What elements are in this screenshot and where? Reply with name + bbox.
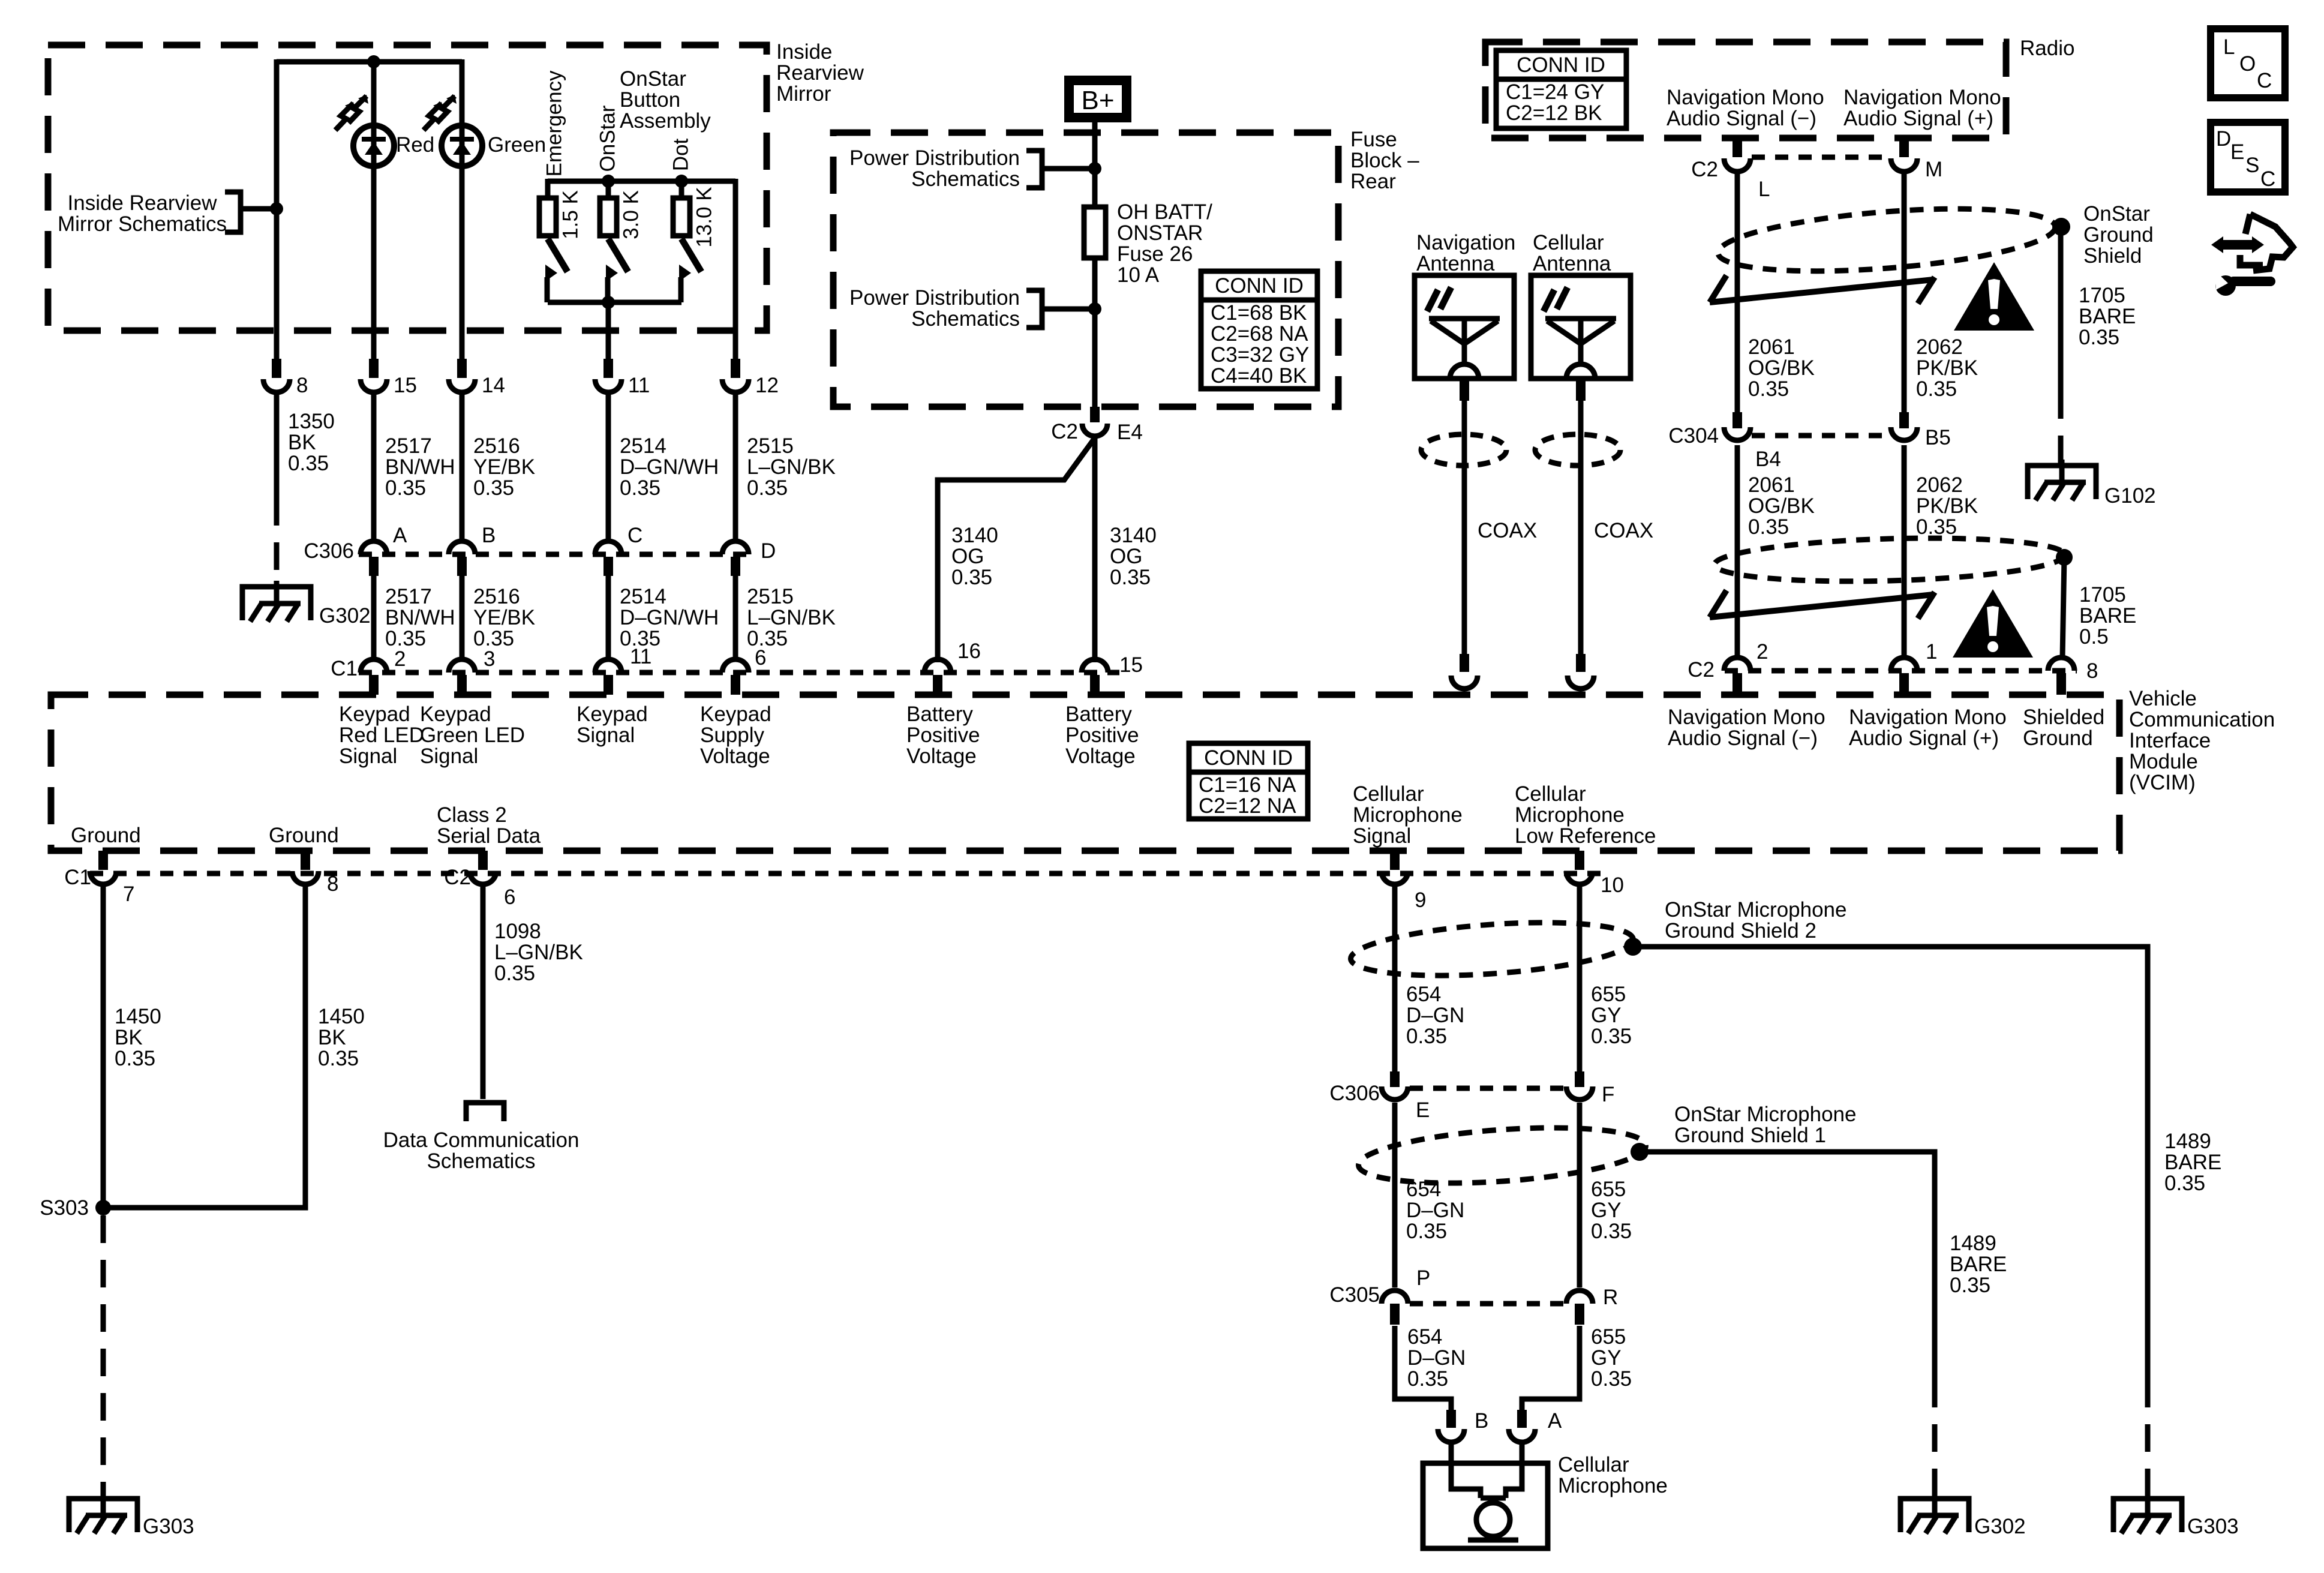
- connector C305 R: [1566, 1290, 1593, 1304]
- wire 1705 bare 0.5: [2062, 557, 2064, 658]
- DESC box: [2211, 122, 2285, 192]
- svg-text:A: A: [393, 524, 407, 547]
- wire 1350 BK solid: [274, 391, 280, 498]
- ground G303 right: [2113, 1493, 2182, 1533]
- bracket Data Communication Schematics: [466, 1103, 504, 1121]
- svg-text:Navigation MonoAudio Signal (+: Navigation MonoAudio Signal (+): [1849, 706, 2007, 750]
- wire ground shield 1 dashed: [1932, 1380, 1938, 1496]
- svg-text:C2: C2: [1051, 420, 1078, 443]
- wire C306 to C1 at x=623: [371, 576, 377, 659]
- wire 2062 upper: [1902, 172, 1907, 414]
- wire to C306 at x=770: [460, 391, 465, 544]
- VCIM bottom pin 6 stub: [478, 851, 488, 870]
- connector C306 E: [1382, 1086, 1408, 1100]
- connector C306 mic dotted line: [1410, 1086, 1566, 1091]
- svg-text:E: E: [2230, 140, 2244, 164]
- svg-text:C: C: [2260, 167, 2275, 191]
- wire branch to pin16: [938, 438, 1095, 662]
- node shield dot lower: [2056, 549, 2073, 566]
- VCIM bottom pin 8 stub: [301, 851, 310, 870]
- connector VCIM pin 6: [722, 659, 749, 673]
- svg-text:C306: C306: [1329, 1082, 1380, 1105]
- wire fuse to bottom: [1092, 258, 1098, 407]
- wire mic T bar: [1481, 1498, 1506, 1503]
- wire rail to R1: [545, 179, 551, 198]
- wire mic B inside: [1451, 1442, 1481, 1498]
- C306 pin A stub: [369, 557, 379, 576]
- wire 654 seg1: [1392, 884, 1398, 1071]
- switch Emergency: [545, 239, 568, 302]
- pin 14 stub: [457, 359, 467, 378]
- radio pin L stub: [1733, 138, 1742, 157]
- connector cell coax at VCIM: [1568, 676, 1594, 689]
- wire green LED feed and to pin14: [460, 59, 465, 359]
- svg-text:C1=24 GY: C1=24 GY: [1506, 80, 1604, 104]
- bracket power distribution upper: [1026, 151, 1042, 188]
- wire 2061 upper: [1735, 172, 1740, 414]
- radio pin M stub: [1899, 138, 1909, 157]
- svg-text:1.5 K: 1.5 K: [559, 190, 582, 239]
- wire button assembly top rail: [548, 179, 735, 184]
- svg-text:D: D: [2216, 127, 2231, 151]
- node S303: [95, 1200, 111, 1215]
- wire 1705 bare upper solid: [2058, 227, 2064, 391]
- bracket Inside Rearview Mirror Schematics: [225, 192, 241, 232]
- connector C306 pin C: [595, 541, 621, 554]
- svg-text:2: 2: [1756, 640, 1768, 664]
- svg-text:8: 8: [2086, 659, 2098, 683]
- wire nav coax: [1462, 401, 1467, 654]
- connector pin 12 cup: [722, 379, 749, 392]
- svg-text:C1: C1: [331, 657, 358, 680]
- C306 mic stub E: [1390, 1071, 1400, 1087]
- svg-text:A: A: [1548, 1409, 1562, 1433]
- connector VCIM bottom pin 9: [1382, 871, 1408, 884]
- connector C305 dotted line: [1410, 1301, 1566, 1307]
- antenna Cellular: [1531, 275, 1631, 379]
- svg-text:ShieldedGround: ShieldedGround: [2023, 706, 2104, 750]
- connector VCIM pin 11: [595, 659, 621, 673]
- microphone symbol: [1476, 1503, 1510, 1536]
- svg-text:2: 2: [394, 647, 406, 671]
- connector C304 dotted line: [1752, 433, 1890, 439]
- svg-text:15: 15: [1119, 653, 1143, 677]
- svg-text:O: O: [2239, 52, 2256, 76]
- svg-text:3: 3: [484, 647, 495, 671]
- wire C306 to C1 at x=1014: [606, 576, 611, 659]
- twisted pair marker upper: [1710, 275, 1935, 304]
- svg-text:6: 6: [755, 646, 766, 670]
- wire 654 seg3: [1395, 1326, 1451, 1410]
- VCIM pin 6 stub: [731, 675, 740, 695]
- twisted pair marker lower: [1710, 590, 1935, 619]
- cellular microphone box: [1423, 1463, 1548, 1548]
- antenna Navigation: [1415, 275, 1514, 379]
- svg-text:Green: Green: [488, 133, 546, 157]
- C304 right stub: [1899, 412, 1909, 428]
- wire ground shield 2 run: [1633, 947, 2148, 1380]
- svg-text:10: 10: [1601, 873, 1624, 897]
- pin 12 stub: [731, 359, 740, 378]
- node mic shield1 dot: [1631, 1143, 1649, 1161]
- wire 1098 L-GN/BK: [481, 884, 486, 1099]
- connector mic A: [1509, 1429, 1535, 1442]
- switch Dot: [679, 239, 701, 302]
- node B+ junction lower: [1088, 302, 1101, 316]
- navigation icon (arrow + wrench): [2211, 214, 2293, 296]
- connector nav coax at VCIM: [1451, 676, 1478, 689]
- svg-text:C2=12 NA: C2=12 NA: [1199, 794, 1296, 818]
- node rail junction at red LED: [367, 55, 380, 68]
- wire ground shield 1 run: [1640, 1152, 1935, 1380]
- table CONN ID fuse block: [1201, 271, 1317, 389]
- wire mirror top rail: [277, 59, 462, 65]
- resistor 13.0K: [673, 198, 690, 236]
- svg-text:8: 8: [296, 374, 308, 397]
- warning triangle lower: [1953, 589, 2033, 658]
- svg-text:B4: B4: [1755, 448, 1781, 471]
- wire S303 to G303 dashed: [101, 1215, 106, 1496]
- svg-text:Emergency: Emergency: [542, 70, 566, 177]
- VCIM bottom pin 10 stub: [1575, 851, 1584, 870]
- bracket power distribution lower: [1026, 290, 1042, 328]
- connector C305 P: [1382, 1290, 1408, 1304]
- svg-text:C2=12 BK: C2=12 BK: [1506, 101, 1602, 125]
- svg-text:M: M: [1925, 158, 1942, 181]
- svg-text:Navigation MonoAudio Signal (−: Navigation MonoAudio Signal (−): [1667, 86, 1824, 130]
- svg-text:OnStar: OnStar: [596, 105, 619, 172]
- connector pin 8 cup: [263, 379, 290, 392]
- VCIM pin 3 stub: [457, 675, 467, 695]
- wire red LED feed and to pin15: [371, 62, 377, 359]
- svg-text:KeypadSupplyVoltage: KeypadSupplyVoltage: [700, 703, 771, 768]
- wire battery positive to pin15: [1092, 437, 1098, 662]
- shield ellipse mic 2: [1349, 915, 1635, 984]
- pin 8 stub: [272, 359, 281, 378]
- svg-text:COAX: COAX: [1478, 519, 1537, 542]
- svg-text:G302: G302: [319, 604, 371, 628]
- wire 2061 lower: [1735, 445, 1740, 660]
- svg-text:E: E: [1416, 1098, 1430, 1122]
- svg-text:C1: C1: [64, 866, 91, 889]
- svg-text:C: C: [627, 524, 642, 547]
- svg-text:E4: E4: [1117, 421, 1143, 444]
- svg-text:CONN ID: CONN ID: [1215, 274, 1304, 298]
- C305 stub P: [1390, 1304, 1400, 1325]
- svg-text:Navigation MonoAudio Signal (−: Navigation MonoAudio Signal (−): [1668, 706, 1825, 750]
- connector pin 14 cup: [449, 379, 475, 392]
- shield ellipse shielded ground: [1714, 534, 2065, 586]
- connector VCIM pin 15: [1082, 659, 1108, 673]
- svg-text:B: B: [1475, 1409, 1488, 1433]
- wire C306 to C1 at x=1226: [733, 576, 738, 659]
- wire 654 seg2: [1392, 1103, 1398, 1287]
- module box Fuse Block Rear: [833, 133, 1338, 407]
- svg-text:CellularAntenna: CellularAntenna: [1533, 231, 1611, 275]
- C306 mic stub F: [1575, 1071, 1584, 1087]
- svg-text:C: C: [2257, 69, 2272, 92]
- svg-text:1: 1: [1926, 640, 1937, 664]
- node rail dot OnStar: [602, 175, 615, 188]
- wire 1450 BK pin7: [101, 884, 106, 1208]
- C306 pin D stub: [731, 557, 740, 576]
- svg-text:15: 15: [394, 374, 417, 397]
- switch OnStar: [606, 239, 628, 302]
- svg-text:C305: C305: [1329, 1283, 1380, 1307]
- svg-text:BatteryPositiveVoltage: BatteryPositiveVoltage: [1065, 703, 1139, 768]
- connector C306 pin B: [449, 541, 475, 554]
- svg-text:C2: C2: [1691, 158, 1718, 181]
- shield ellipse mic 1: [1357, 1119, 1648, 1191]
- svg-text:14: 14: [482, 374, 505, 397]
- connector C306 pin D: [722, 541, 749, 554]
- wire bracket upper to B+ wire: [1042, 166, 1095, 172]
- svg-text:B: B: [482, 524, 496, 547]
- ground G102: [2028, 460, 2096, 500]
- wire rail to R3: [679, 181, 684, 198]
- ground G303 left: [69, 1493, 137, 1533]
- nav antenna stub: [1460, 379, 1469, 401]
- wire bus to pin11: [606, 302, 611, 359]
- connector radio M: [1891, 158, 1917, 172]
- wire to C306 at x=623: [371, 391, 377, 544]
- wire pin8 drop from rail: [274, 59, 280, 359]
- svg-text:S303: S303: [40, 1196, 89, 1220]
- fuse OH BATT/ONSTAR Fuse 26 10A: [1084, 207, 1106, 258]
- wire mic A inside: [1506, 1442, 1522, 1498]
- wire switch common bus: [548, 300, 681, 305]
- wire cell coax: [1578, 401, 1584, 654]
- VCIM bottom pin 9 stub: [1390, 851, 1400, 870]
- resistor 3.0K: [600, 198, 617, 236]
- VCIM audio pin 2 stub: [1733, 673, 1742, 695]
- wire 655 seg1: [1577, 884, 1583, 1071]
- svg-text:B+: B+: [1081, 86, 1114, 115]
- connector C1/C2 dotted line VCIM top left: [359, 670, 1119, 676]
- node switch bus junction: [602, 296, 615, 309]
- svg-text:Navigation MonoAudio Signal (+: Navigation MonoAudio Signal (+): [1843, 86, 2001, 130]
- wire 1705 bare upper dashed: [2058, 391, 2064, 463]
- svg-text:G302: G302: [1974, 1515, 2026, 1538]
- connector C306 F: [1566, 1086, 1593, 1100]
- svg-text:F: F: [1602, 1083, 1614, 1106]
- wire bracket to pin8 wire: [241, 206, 277, 212]
- svg-text:Ground: Ground: [71, 824, 141, 847]
- connector VCIM bottom pin 7: [90, 871, 116, 884]
- svg-text:COAX: COAX: [1594, 519, 1653, 542]
- svg-text:C2=68 NA: C2=68 NA: [1211, 322, 1308, 346]
- node mic shield2 dot: [1624, 938, 1642, 956]
- connector C2 E4: [1082, 424, 1107, 436]
- VCIM audio pin 1 stub: [1899, 673, 1909, 695]
- svg-text:11: 11: [630, 645, 651, 668]
- power feed B+ box: [1069, 80, 1127, 118]
- LOC box: [2211, 29, 2285, 98]
- connector VCIM pin 3: [449, 659, 475, 673]
- connector C306 pin A: [361, 541, 387, 554]
- svg-text:Red: Red: [396, 133, 434, 157]
- module box Inside Rearview Mirror: [48, 45, 767, 331]
- svg-text:3.0 K: 3.0 K: [619, 190, 642, 239]
- svg-text:C2: C2: [444, 866, 471, 889]
- connector C306 dotted line: [359, 552, 753, 557]
- connector pin 15 cup: [361, 379, 387, 392]
- connector VCIM pin 16: [924, 659, 951, 673]
- connector VCIM audio pin 1: [1891, 658, 1917, 671]
- node shield dot radio: [2052, 218, 2070, 236]
- C306 pin B stub: [457, 557, 467, 576]
- svg-text:11: 11: [628, 374, 650, 397]
- C304 left stub: [1733, 412, 1742, 428]
- connector pin 11 cup: [595, 379, 621, 392]
- LED red indicator: [335, 95, 394, 166]
- svg-text:13.0 K: 13.0 K: [692, 187, 716, 247]
- svg-text:BatteryPositiveVoltage: BatteryPositiveVoltage: [906, 703, 980, 768]
- connector C304 B4: [1724, 427, 1750, 440]
- node rail dot Dot: [675, 175, 688, 188]
- mic pin A stub: [1517, 1410, 1527, 1428]
- wire to C306 at x=1014: [606, 391, 611, 544]
- connector VCIM bottom pin 10: [1566, 871, 1593, 884]
- connector VCIM audio pin 8: [2048, 658, 2074, 671]
- svg-text:S: S: [2245, 154, 2259, 177]
- nav coax stub lower: [1460, 654, 1469, 672]
- module box Radio: [1485, 42, 2006, 138]
- table CONN ID VCIM: [1189, 743, 1308, 819]
- wire 655 seg2: [1577, 1103, 1583, 1287]
- ground G302 left: [242, 581, 311, 622]
- svg-text:L: L: [2223, 35, 2235, 59]
- connector VCIM bottom dotted line: [90, 871, 1608, 876]
- ground G302 right: [1900, 1493, 1969, 1533]
- module box VCIM: [51, 695, 2119, 851]
- wire to C306 at x=1226: [733, 391, 738, 544]
- svg-text:6: 6: [504, 885, 515, 909]
- VCIM audio pin 8 stub: [2056, 673, 2066, 695]
- table CONN ID radio: [1496, 50, 1626, 128]
- cell antenna stub: [1576, 379, 1586, 401]
- svg-text:P: P: [1416, 1266, 1430, 1290]
- svg-text:B5: B5: [1925, 426, 1951, 449]
- svg-text:C304: C304: [1668, 424, 1719, 448]
- C305 stub R: [1575, 1304, 1584, 1325]
- wire 1350 BK dashed to G302: [274, 498, 280, 592]
- coax shield ellipse nav: [1421, 434, 1506, 466]
- wire assembly right leg to pin12: [733, 179, 738, 359]
- connector VCIM bottom pin 6: [470, 871, 496, 884]
- connector VCIM bottom pin 8: [292, 871, 319, 884]
- svg-text:C2: C2: [1688, 658, 1715, 682]
- svg-text:7: 7: [123, 882, 134, 906]
- connector VCIM pin 2: [361, 659, 387, 673]
- svg-text:L: L: [1758, 178, 1770, 201]
- radio C2 dotted line: [1752, 155, 1890, 160]
- svg-text:C4=40 BK: C4=40 BK: [1211, 364, 1307, 388]
- svg-text:8: 8: [327, 872, 338, 896]
- cell coax stub lower: [1576, 654, 1586, 672]
- svg-text:D: D: [761, 539, 776, 563]
- wire B+ into fuse block: [1092, 122, 1098, 207]
- svg-text:12: 12: [755, 374, 779, 397]
- svg-text:C3=32 GY: C3=32 GY: [1211, 343, 1309, 367]
- VCIM pin 16 stub: [933, 675, 942, 695]
- svg-text:CONN ID: CONN ID: [1517, 53, 1605, 77]
- connector mic B: [1438, 1429, 1464, 1442]
- resistor 1.5K: [539, 198, 556, 236]
- svg-text:C1=68 BK: C1=68 BK: [1211, 301, 1307, 325]
- svg-text:Ground: Ground: [269, 824, 339, 847]
- svg-text:G102: G102: [2104, 484, 2156, 508]
- pin 15 stub: [369, 359, 379, 378]
- wire bracket lower to B+ wire: [1042, 307, 1095, 312]
- VCIM bottom pin 7 stub: [98, 851, 108, 870]
- warning triangle upper: [1954, 262, 2034, 331]
- wire 655 seg3: [1522, 1326, 1580, 1410]
- connector VCIM audio pin 2: [1724, 658, 1750, 671]
- svg-text:G303: G303: [143, 1515, 194, 1538]
- wire C306 to C1 at x=770: [460, 576, 465, 659]
- svg-text:C1=16 NA: C1=16 NA: [1199, 773, 1296, 797]
- connector VCIM C2 dotted line right: [1725, 668, 2077, 674]
- svg-text:R: R: [1603, 1286, 1618, 1309]
- wire ground shield 2 dashed: [2145, 1380, 2151, 1496]
- svg-text:Dot: Dot: [669, 138, 692, 171]
- connector C304 B5: [1891, 427, 1917, 440]
- mic pin B stub: [1446, 1410, 1456, 1428]
- VCIM pin 15 stub: [1090, 675, 1100, 695]
- wire 1450 BK pin8: [103, 884, 305, 1208]
- svg-text:9: 9: [1415, 888, 1426, 912]
- svg-text:Radio: Radio: [2020, 37, 2074, 60]
- LED green indicator: [424, 95, 482, 166]
- node B+ junction upper: [1088, 162, 1101, 175]
- shield ellipse OnStar ground: [1716, 199, 2058, 281]
- VCIM pin 11 stub: [603, 675, 613, 695]
- node junction on pin8 wire: [270, 202, 283, 215]
- C306 pin C stub: [603, 557, 613, 576]
- coax shield ellipse cell: [1535, 434, 1620, 466]
- svg-text:G303: G303: [2187, 1515, 2239, 1538]
- wire rail to R2: [606, 181, 611, 198]
- svg-text:Inside RearviewMirror Schemati: Inside RearviewMirror Schematics: [58, 191, 227, 236]
- svg-text:C306: C306: [304, 539, 354, 563]
- connector radio C2 L: [1724, 158, 1750, 172]
- VCIM pin 2 stub: [369, 675, 379, 695]
- C2/E4 stub: [1090, 407, 1100, 422]
- wire 2062 lower: [1902, 445, 1907, 660]
- svg-text:16: 16: [957, 640, 981, 663]
- svg-text:CONN ID: CONN ID: [1204, 746, 1293, 770]
- pin 11 stub: [603, 359, 613, 378]
